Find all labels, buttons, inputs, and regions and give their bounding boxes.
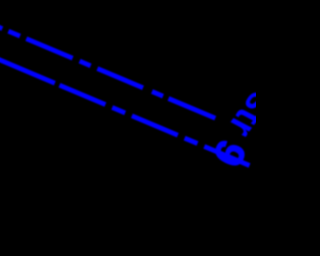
wire: edge A dash 1 — [0, 26, 2, 28]
wire: edge A dash 7 — [169, 99, 216, 119]
wire: edge A dash 2 — [8, 31, 20, 36]
edge A (upper dashed blue edge) — [0, 26, 215, 118]
edge B (lower dashed blue edge) — [0, 59, 250, 166]
wire: edge B dash 5 — [185, 138, 198, 143]
wire: edge B dash 6 — [204, 146, 249, 165]
wire: edge A dash 6 — [152, 92, 163, 97]
wire: edge A dash 4 — [80, 61, 91, 66]
wire: edge B dash 1 — [0, 59, 55, 83]
wire: edge B dash 3 — [112, 107, 125, 113]
wire: edge A dash 3 — [26, 39, 72, 59]
wire: edge B dash 4 — [132, 116, 178, 135]
wire: edge A dash 5 — [97, 69, 143, 88]
wire: edge B dash 2 — [60, 85, 106, 104]
